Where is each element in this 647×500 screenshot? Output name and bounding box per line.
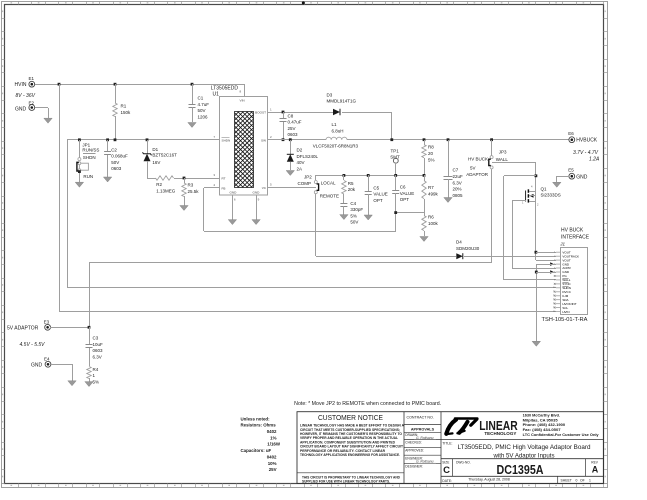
- op-amp U1 LT3505EDD: [159, 86, 327, 202]
- svg-text:1%: 1%: [270, 435, 276, 440]
- svg-text:VC: VC: [262, 186, 267, 190]
- svg-text:HVIN: HVIN: [562, 310, 569, 314]
- svg-text:VALUE: VALUE: [400, 191, 414, 196]
- terminal E4 GND: [31, 357, 51, 369]
- wire Q1 drain to VOUT pins: [535, 202, 557, 261]
- svg-text:VLCF5020T-6R8N1R3: VLCF5020T-6R8N1R3: [313, 144, 359, 149]
- svg-text:TSH-105-01-T-RA: TSH-105-01-T-RA: [542, 317, 589, 323]
- title block frame: [297, 412, 604, 484]
- wire SHDN bottom rail to J1: [67, 287, 556, 289]
- svg-text:R1: R1: [121, 104, 127, 109]
- junction HVIN/left rail: [58, 83, 61, 86]
- ground at E2: [44, 118, 52, 123]
- svg-text:50V: 50V: [111, 160, 119, 165]
- svg-text:CHECKED:: CHECKED:: [405, 441, 422, 445]
- svg-text:100k: 100k: [428, 221, 439, 226]
- ground at C1: [188, 123, 196, 128]
- svg-text:OPT: OPT: [373, 198, 383, 203]
- svg-text:5%: 5%: [350, 213, 357, 218]
- svg-text:DATE:: DATE:: [442, 479, 452, 483]
- svg-text:LT3505EDD, PMIC High Voltage A: LT3505EDD, PMIC High Voltage Adaptor Boa…: [458, 444, 592, 451]
- svg-text:0805: 0805: [453, 193, 464, 198]
- svg-text:FB: FB: [222, 186, 226, 190]
- svg-text:SDM20U30: SDM20U30: [456, 246, 480, 251]
- svg-text:INTERFACE: INTERFACE: [561, 234, 590, 240]
- svg-text:Note: * Move JP2 to REMOTE whe: Note: * Move JP2 to REMOTE when connecte…: [294, 401, 441, 407]
- svg-text:25V: 25V: [269, 467, 277, 472]
- svg-text:SMT: SMT: [390, 154, 400, 159]
- diode D2: [287, 138, 319, 171]
- svg-text:50V: 50V: [350, 220, 358, 225]
- resistor R2: [156, 176, 176, 194]
- svg-text:0: 0: [576, 478, 578, 482]
- svg-text:JP2: JP2: [304, 175, 312, 180]
- svg-text:RUN/SS: RUN/SS: [82, 147, 99, 152]
- svg-text:R4: R4: [93, 367, 99, 372]
- svg-text:3.7V - 4.7V: 3.7V - 4.7V: [573, 150, 599, 156]
- svg-text:C8: C8: [288, 113, 294, 118]
- approvals column: [404, 416, 441, 469]
- svg-text:APPROVALS: APPROVALS: [411, 427, 435, 431]
- svg-text:0603: 0603: [93, 348, 104, 353]
- ground at E4: [68, 381, 76, 386]
- svg-text:E6: E6: [568, 131, 574, 136]
- svg-text:C6: C6: [400, 185, 406, 190]
- svg-text:1630 McCarthy Blvd.: 1630 McCarthy Blvd.: [523, 414, 561, 418]
- inductor L1: [313, 122, 359, 149]
- svg-text:20%: 20%: [453, 187, 462, 192]
- ground at D2: [286, 171, 294, 176]
- svg-text:RUN: RUN: [83, 174, 93, 179]
- customer notice box: [297, 415, 405, 484]
- node HVIN voltage label: [16, 93, 36, 99]
- svg-text:20: 20: [428, 151, 434, 156]
- svg-text:5V: 5V: [470, 166, 476, 171]
- capacitor C6: [392, 174, 414, 214]
- svg-text:OF: OF: [580, 478, 585, 482]
- resistor R6: [422, 213, 439, 236]
- wire U1 VIN riser: [240, 84, 245, 96]
- svg-text:LOCAL: LOCAL: [321, 180, 336, 185]
- terminal E3 5V ADAPTOR: [7, 320, 50, 332]
- svg-text:16V: 16V: [152, 160, 160, 165]
- svg-text:APPROVED:: APPROVED:: [405, 449, 424, 453]
- svg-text:5%: 5%: [428, 157, 435, 162]
- svg-text:4.5V - 5.5V: 4.5V - 5.5V: [20, 342, 46, 348]
- svg-text:DC1395A: DC1395A: [497, 463, 544, 477]
- note JP2 remote: [294, 401, 441, 407]
- svg-text:0603: 0603: [288, 132, 299, 137]
- svg-text:LTC Confidential-For Customer: LTC Confidential-For Customer Use Only: [523, 433, 599, 437]
- terminal E2 GND: [15, 100, 35, 112]
- wire HVIN long vertical: [59, 84, 61, 311]
- svg-text:C7: C7: [453, 168, 459, 173]
- ground at R3: [180, 206, 188, 211]
- svg-text:25V: 25V: [288, 126, 296, 131]
- svg-text:R5: R5: [348, 181, 354, 186]
- wire E4 to ground: [51, 364, 73, 381]
- svg-text:C2: C2: [111, 147, 117, 152]
- svg-text:DWG-NO.: DWG-NO.: [456, 461, 471, 465]
- svg-text:R3: R3: [188, 183, 194, 188]
- svg-text:ADAPTOR: ADAPTOR: [466, 172, 488, 177]
- ground at C4: [340, 215, 348, 220]
- svg-text:JP3: JP3: [499, 150, 507, 155]
- svg-text:R8: R8: [428, 145, 434, 150]
- node HVBUCK ratings: [573, 150, 600, 163]
- svg-text:1.13MEG: 1.13MEG: [156, 189, 176, 194]
- svg-text:4.7uF: 4.7uF: [198, 102, 210, 107]
- diode D1 zener: [114, 138, 178, 178]
- resistor R7: [422, 175, 439, 213]
- terminal E6 HVBUCK: [568, 131, 598, 144]
- svg-text:Fax: (408) 434-0507: Fax: (408) 434-0507: [523, 428, 561, 432]
- svg-text:1/16W: 1/16W: [267, 442, 281, 447]
- svg-text:GND: GND: [576, 175, 588, 181]
- ground at R6: [420, 237, 428, 242]
- terminal E5 GND: [568, 168, 588, 181]
- svg-text:COMP: COMP: [298, 181, 312, 186]
- svg-text:5%: 5%: [93, 380, 100, 385]
- wire HVIN bottom rail to J1: [59, 311, 556, 313]
- svg-text:SUPPLIED FOR USE WITH LINEAR T: SUPPLIED FOR USE WITH LINEAR TECHNOLOGY …: [302, 480, 390, 484]
- capacitor C7: [444, 138, 464, 198]
- svg-text:MMDL914T1G: MMDL914T1G: [327, 98, 357, 103]
- transistor Q1 Si2333DS: [522, 185, 561, 207]
- Linear Technology logo: [446, 414, 599, 437]
- capacitor C1: [189, 83, 210, 122]
- wire SHDN long vertical: [67, 140, 69, 288]
- svg-text:Phone: (408) 432-1900: Phone: (408) 432-1900: [523, 423, 566, 427]
- svg-text:6.3V: 6.3V: [93, 355, 102, 360]
- svg-text:25.5k: 25.5k: [188, 189, 200, 194]
- ruler mark dot: [302, 1, 305, 4]
- svg-text:40V: 40V: [297, 160, 305, 165]
- diode D3: [327, 92, 357, 115]
- wire J1 GND pins vertical: [535, 264, 556, 341]
- svg-text:10uF: 10uF: [93, 342, 104, 347]
- svg-text:0.068uF: 0.068uF: [111, 154, 128, 159]
- jumper JP2 COMP: [298, 175, 340, 199]
- svg-text:E3: E3: [44, 320, 50, 325]
- svg-text:E5: E5: [568, 168, 574, 173]
- svg-text:DFLS240L: DFLS240L: [297, 154, 319, 159]
- svg-text:1206: 1206: [198, 114, 209, 119]
- svg-text:TP1: TP1: [391, 148, 400, 153]
- svg-text:G. Rotisanu: G. Rotisanu: [416, 460, 434, 464]
- svg-text:330pF: 330pF: [350, 207, 363, 212]
- svg-text:G. Rotisanu: G. Rotisanu: [416, 436, 434, 440]
- svg-text:E1: E1: [29, 76, 35, 81]
- ground at U1 pin6: [228, 220, 236, 225]
- node 5V ADAPTOR voltage label: [20, 342, 46, 348]
- test point TP1: [390, 148, 400, 175]
- svg-text:D2: D2: [297, 148, 303, 153]
- ground at JP1: [75, 182, 83, 187]
- svg-text:OPT: OPT: [400, 197, 410, 202]
- svg-text:SW: SW: [261, 138, 266, 142]
- wire 5V adaptor rail: [89, 262, 492, 327]
- svg-text:C5: C5: [373, 185, 379, 190]
- svg-text:0.47uF: 0.47uF: [288, 120, 302, 125]
- svg-text:J1: J1: [559, 242, 565, 247]
- capacitor C8: [280, 111, 302, 142]
- svg-text:E2: E2: [29, 100, 35, 105]
- svg-text:TECHNOLOGY APPLICATIONS ENGINE: TECHNOLOGY APPLICATIONS ENGINEERING FOR …: [300, 453, 400, 457]
- svg-text:R2: R2: [156, 182, 162, 187]
- svg-text:20k: 20k: [348, 187, 356, 192]
- svg-text:L1: L1: [332, 122, 338, 127]
- ground at R4: [85, 382, 93, 387]
- ground at E5: [553, 182, 561, 187]
- svg-text:22uF: 22uF: [453, 174, 464, 179]
- resistor R4: [87, 367, 99, 385]
- jumper JP3 WALL: [466, 138, 508, 177]
- wire HVIN top rail: [35, 84, 244, 86]
- wire JP2 local to comp rail: [316, 175, 425, 180]
- wire WALL net: [492, 162, 556, 280]
- svg-text:6.8uH: 6.8uH: [332, 128, 344, 133]
- svg-text:499k: 499k: [428, 192, 439, 197]
- svg-text:2A: 2A: [297, 166, 303, 171]
- svg-text:HVIN: HVIN: [15, 82, 27, 88]
- svg-text:GND: GND: [253, 191, 261, 195]
- wire Q1 gate to ACPR: [512, 200, 556, 269]
- svg-text:GND: GND: [15, 106, 27, 112]
- wire VC/COMP line: [268, 187, 316, 189]
- svg-text:Unless noted:: Unless noted:: [241, 416, 271, 421]
- resistor R1: [113, 83, 131, 140]
- svg-text:Q1: Q1: [541, 186, 548, 191]
- capacitor C5: [365, 174, 388, 215]
- connector J1 TSH-105: [542, 228, 590, 323]
- svg-text:TITLE:: TITLE:: [442, 442, 452, 446]
- resistor R5: [342, 174, 356, 201]
- svg-text:WALL: WALL: [496, 157, 509, 162]
- svg-text:R7: R7: [428, 185, 434, 190]
- svg-text:R6: R6: [428, 215, 434, 220]
- wire RT rail: [147, 178, 220, 180]
- title rows: [441, 440, 604, 484]
- jumper JP1 RUN/SS: [77, 138, 100, 182]
- wire SHDN rail: [67, 139, 220, 141]
- svg-text:HVBUCK: HVBUCK: [576, 138, 598, 144]
- svg-text:8V - 36V: 8V - 36V: [16, 93, 36, 99]
- svg-text:E4: E4: [44, 357, 50, 362]
- wire E2 to ground: [35, 108, 49, 119]
- svg-text:GND: GND: [230, 191, 238, 195]
- junction D3/SW: [390, 138, 393, 141]
- svg-text:D4: D4: [456, 240, 462, 245]
- svg-text:Resistors: Ohms: Resistors: Ohms: [241, 423, 277, 428]
- wire SW rail: [268, 139, 569, 141]
- terminal E1 HVIN: [15, 76, 35, 88]
- svg-text:TECHNOLOGY: TECHNOLOGY: [484, 431, 517, 437]
- svg-text:Milpitas, CA 95035: Milpitas, CA 95035: [523, 418, 558, 422]
- svg-text:U1: U1: [213, 91, 220, 97]
- ground below J1: [532, 341, 540, 346]
- svg-text:Si2333DS: Si2333DS: [541, 193, 561, 198]
- ground at C2: [103, 177, 111, 182]
- svg-text:C1: C1: [198, 96, 204, 101]
- svg-text:1.2A: 1.2A: [589, 156, 600, 162]
- wire FB net: [204, 188, 425, 232]
- svg-text:BZT52C16T: BZT52C16T: [152, 152, 177, 157]
- ground at C5: [364, 215, 372, 220]
- svg-text:5V ADAPTOR: 5V ADAPTOR: [7, 325, 39, 331]
- wire JP3 to 5V adaptor rail: [491, 169, 493, 262]
- svg-text:50V: 50V: [198, 108, 206, 113]
- svg-text:Capacitors: uF: Capacitors: uF: [241, 448, 272, 453]
- svg-text:A: A: [592, 464, 599, 474]
- svg-text:10%: 10%: [268, 461, 277, 466]
- diode D4: [456, 240, 480, 260]
- svg-text:SHDN: SHDN: [83, 155, 96, 160]
- svg-text:DESIGNER:: DESIGNER:: [405, 464, 423, 468]
- svg-text:SHEET: SHEET: [561, 478, 572, 482]
- svg-text:D1: D1: [152, 147, 158, 152]
- svg-text:1: 1: [589, 478, 591, 482]
- svg-text:CUSTOMER NOTICE: CUSTOMER NOTICE: [318, 415, 383, 422]
- svg-text:6.3V: 6.3V: [453, 180, 462, 185]
- resistor R8: [422, 138, 435, 177]
- resistor R3: [182, 177, 199, 206]
- svg-text:REMOTE: REMOTE: [320, 194, 339, 199]
- svg-text:0402: 0402: [267, 455, 277, 460]
- svg-text:LINEAR: LINEAR: [479, 419, 518, 433]
- ground at C7: [444, 198, 452, 203]
- svg-text:C4: C4: [350, 201, 356, 206]
- wire U1 GND stubs: [233, 195, 257, 220]
- svg-text:D3: D3: [327, 92, 333, 97]
- svg-text:0603: 0603: [111, 166, 122, 171]
- wire BOOST line: [268, 112, 392, 140]
- capacitor C3: [86, 327, 104, 366]
- svg-text:RT: RT: [222, 177, 226, 181]
- svg-text:VALUE: VALUE: [373, 192, 387, 197]
- svg-text:C3: C3: [93, 336, 99, 341]
- wire E5 to ground: [557, 176, 570, 182]
- svg-text:BOOST: BOOST: [255, 111, 266, 115]
- svg-text:VIN: VIN: [240, 99, 245, 103]
- capacitor C2: [104, 138, 128, 177]
- wire E3 to C3: [50, 326, 90, 329]
- ground at U1 pin9: [252, 220, 260, 225]
- svg-text:GND: GND: [31, 363, 43, 369]
- svg-text:0402: 0402: [267, 429, 277, 434]
- svg-text:150k: 150k: [121, 110, 132, 115]
- wire JP2 remote net: [316, 194, 557, 257]
- svg-text:HV BUCK: HV BUCK: [468, 156, 488, 161]
- svg-text:CONTRACT NO.: CONTRACT NO.: [407, 416, 434, 420]
- svg-text:SHDN: SHDN: [222, 138, 231, 142]
- svg-text:C: C: [443, 465, 450, 476]
- capacitor C4: [340, 201, 363, 225]
- svg-text:Thursday, August 28, 2008: Thursday, August 28, 2008: [468, 478, 510, 482]
- notes unless-noted block: [241, 416, 281, 472]
- svg-text:HV BUCK: HV BUCK: [561, 228, 584, 234]
